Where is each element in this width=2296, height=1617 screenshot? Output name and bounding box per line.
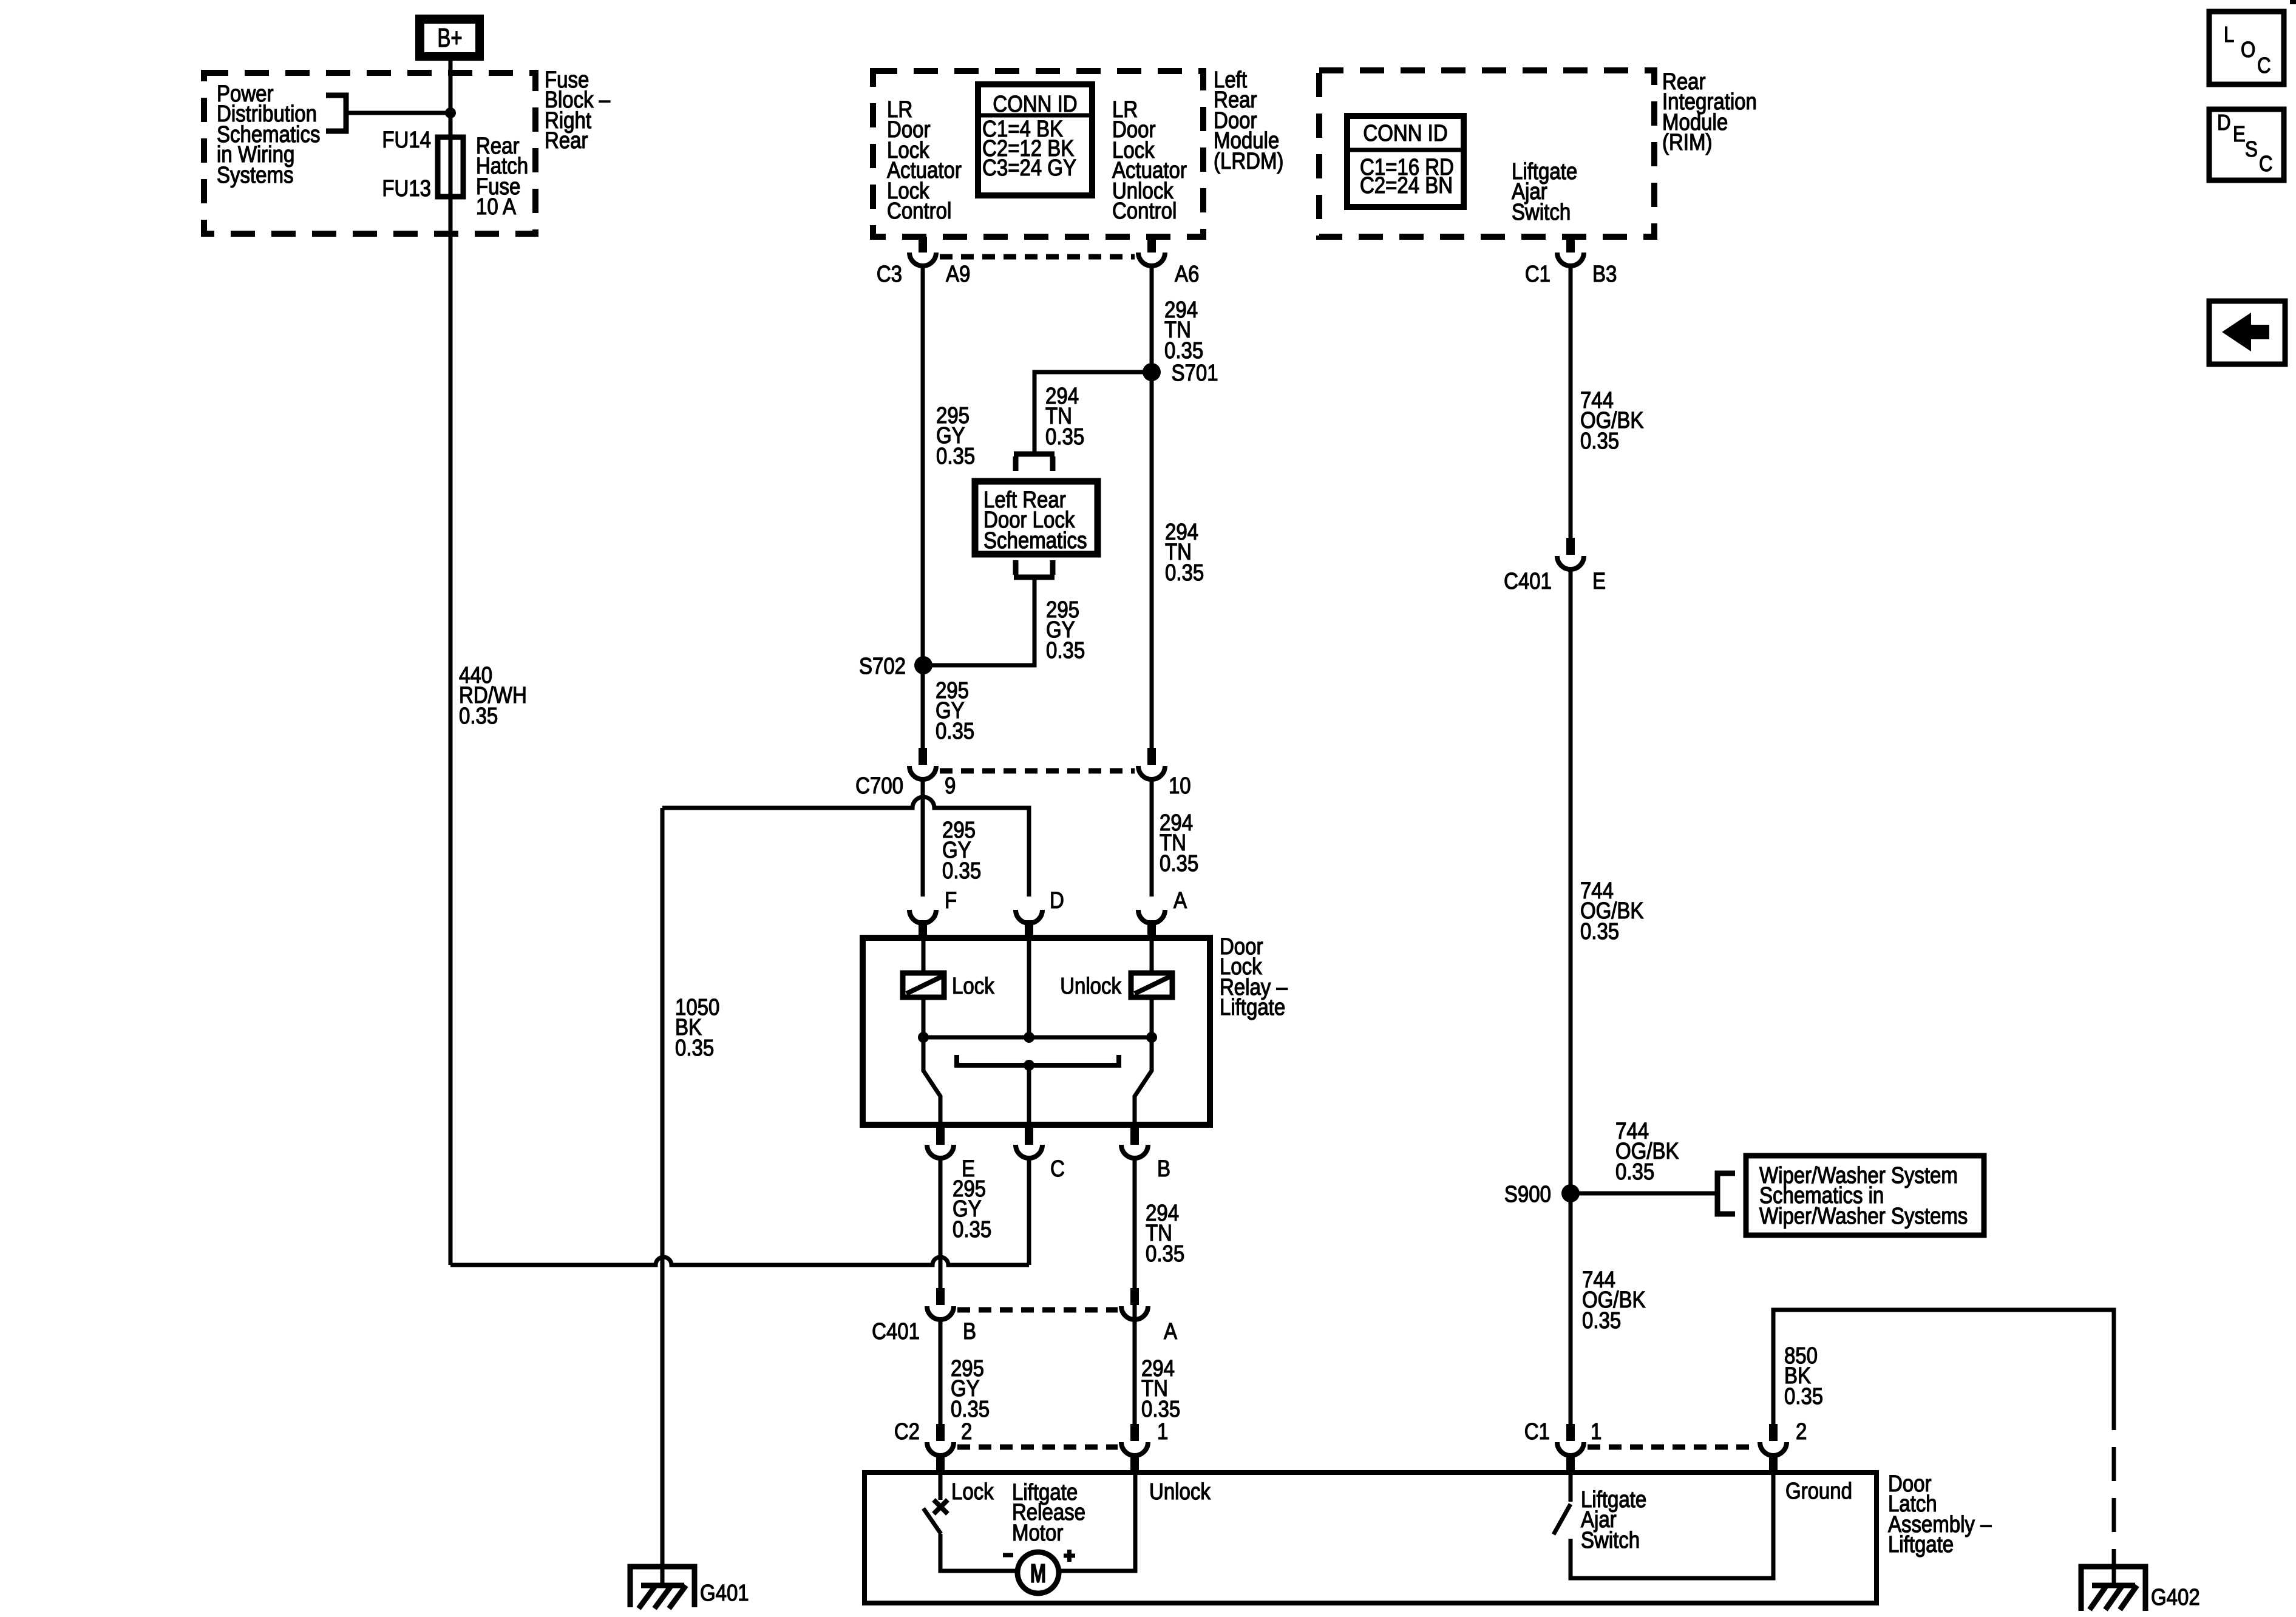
wire S900 branch to wiper/washer <box>1571 1192 1717 1196</box>
relay coil common bus <box>923 1036 1152 1040</box>
svg-text:1: 1 <box>1591 1419 1601 1445</box>
splice S702 <box>914 656 932 674</box>
reference box Left Rear Door Lock Schematics <box>975 481 1098 554</box>
connector relay pin C <box>1016 1125 1042 1158</box>
wire 294 TN C700-10 to relay pin A <box>1150 779 1154 897</box>
label 295 GY 0.35 (below A9) <box>936 402 975 469</box>
label 744 OG/BK 0.35 (above S900) <box>1615 1118 1679 1185</box>
wire 440 RD/WH horizontal run to relay pin C <box>450 1257 1029 1265</box>
label Left Rear Door Module (LRDM) <box>1214 67 1283 174</box>
connector C700 pin 9 <box>909 748 936 779</box>
off-page bracket to Power Distribution Schematics <box>326 95 346 131</box>
connector relay pin D <box>1016 910 1042 938</box>
svg-text:C700: C700 <box>855 773 903 799</box>
wire relay A to unlock coil <box>1150 938 1154 973</box>
svg-text:C3=24 GY: C3=24 GY <box>982 155 1076 181</box>
svg-text:D: D <box>2217 110 2231 135</box>
svg-text:E: E <box>2233 122 2246 147</box>
label Door Latch Assembly - Liftgate <box>1888 1471 1992 1558</box>
svg-text:B: B <box>963 1318 976 1344</box>
label 744 OG/BK 0.35 (mid run) <box>1580 878 1644 944</box>
label Liftgate Release Motor <box>1012 1479 1085 1546</box>
junction dot armature center <box>1024 1060 1034 1071</box>
svg-text:Rear: Rear <box>545 127 588 154</box>
svg-text:(LRDM): (LRDM) <box>1214 148 1283 174</box>
label plus <box>1064 1550 1075 1562</box>
label 294 TN 0.35 (below S701) <box>1165 519 1204 586</box>
wire 744 OG/BK C401-E to S900 <box>1569 569 1573 1424</box>
svg-text:C: C <box>2259 152 2273 177</box>
icon LOC box <box>2209 12 2284 84</box>
wire lock coil to bus <box>922 997 926 1037</box>
svg-text:C2=24 BN: C2=24 BN <box>1360 172 1453 198</box>
connector C3 pin A9 (LRDM lock control) <box>909 237 936 266</box>
svg-text:0.35: 0.35 <box>1784 1383 1823 1409</box>
label 295 GY 0.35 (below relay E) <box>953 1176 991 1242</box>
connector table CONN ID (LRDM) <box>978 84 1092 195</box>
wire 440 RD/WH 0.35 vertical run <box>449 197 453 1265</box>
connector dashed line C700 row <box>940 768 1135 774</box>
svg-text:1: 1 <box>1157 1419 1168 1445</box>
svg-text:0.35: 0.35 <box>936 443 975 469</box>
module RIM dashed box <box>1319 70 1654 237</box>
svg-text:Wiper/Washer Systems: Wiper/Washer Systems <box>1759 1203 1968 1229</box>
label 295 GY 0.35 (above C2) <box>951 1355 990 1422</box>
svg-text:Systems: Systems <box>217 162 293 188</box>
svg-text:Unlock: Unlock <box>1060 973 1121 999</box>
connector relay pin A <box>1138 910 1165 938</box>
motor M liftgate release <box>1017 1552 1059 1593</box>
connector C401 pin A <box>1121 1288 1148 1320</box>
svg-text:Lock: Lock <box>952 973 994 999</box>
svg-text:L: L <box>2224 22 2234 47</box>
off-page bracket to wiper/washer schematics <box>1717 1173 1735 1214</box>
connector C2 pin 2 <box>927 1424 954 1474</box>
wire relay D to bus <box>1027 938 1031 1037</box>
wire tie 1050 BK to relay pin D with hop over 295 GY <box>662 797 1029 897</box>
svg-text:0.35: 0.35 <box>1582 1307 1621 1334</box>
component box Door Latch Assembly - Liftgate <box>864 1473 1877 1603</box>
connector C401 pin B <box>927 1288 954 1320</box>
connector table CONN ID (RIM) <box>1347 116 1464 207</box>
svg-text:0.35: 0.35 <box>1046 637 1085 663</box>
svg-text:E: E <box>1592 568 1606 594</box>
svg-text:CONN ID: CONN ID <box>993 91 1077 117</box>
svg-text:10 A: 10 A <box>476 194 516 220</box>
svg-text:B+: B+ <box>437 24 462 53</box>
wire 295 GY from schematics box to S702 <box>923 577 1034 665</box>
svg-text:Unlock: Unlock <box>1149 1479 1211 1505</box>
wire 850 BK dashed drop to G402 <box>2112 1447 2116 1585</box>
fuse block dashed box (Power Distribution / Fuse Block Right Rear) <box>204 73 535 234</box>
connector C1 pin 2 (door latch ground) <box>1760 1424 1787 1474</box>
module LRDM dashed box <box>873 71 1203 237</box>
svg-text:FU14: FU14 <box>382 127 431 153</box>
label Rear Hatch Fuse 10 A <box>476 133 528 220</box>
svg-text:0.35: 0.35 <box>459 703 498 729</box>
svg-text:Switch: Switch <box>1512 199 1571 225</box>
ajar switch blade <box>1554 1504 1571 1534</box>
icon DESC box <box>2209 109 2284 180</box>
svg-text:C1: C1 <box>1525 261 1550 287</box>
svg-text:0.35: 0.35 <box>936 718 974 744</box>
svg-text:C3: C3 <box>877 261 902 287</box>
wire 294 TN from A6 to C700-10 <box>1150 266 1154 748</box>
label 440 RD/WH 0.35 <box>459 662 527 729</box>
wire 295 GY C700-9 to relay pin F <box>921 779 925 897</box>
relay unlock coil <box>1131 973 1172 997</box>
label 294 TN 0.35 (S701 branch) <box>1045 383 1084 450</box>
svg-text:Liftgate: Liftgate <box>1220 994 1285 1020</box>
relay armature bar <box>957 1055 1119 1065</box>
svg-text:S900: S900 <box>1504 1181 1551 1207</box>
connector C1 pin B3 (RIM) <box>1557 237 1584 266</box>
wire 1050 BK 0.35 to ground G401 <box>661 808 665 1585</box>
wire bracket to B+ node <box>346 111 450 115</box>
svg-text:0.35: 0.35 <box>675 1035 714 1061</box>
wire 295 GY relay E to C401-B <box>939 1158 943 1288</box>
wire ajar switch to ground pin 2 <box>1571 1474 1773 1578</box>
svg-text:Schematics: Schematics <box>983 527 1087 554</box>
wire 850 BK pin 2 to G402 run <box>1773 1310 2114 1430</box>
wire motor plus to unlock pin 1 <box>1060 1473 1135 1571</box>
relay box Door Lock Relay - Liftgate <box>863 938 1210 1125</box>
connector C700 pin 10 <box>1138 748 1165 779</box>
label 1050 BK 0.35 <box>675 994 719 1061</box>
label Liftgate Ajar Switch (door latch) <box>1581 1486 1646 1553</box>
connector relay pin B <box>1121 1125 1148 1158</box>
svg-text:C: C <box>2257 53 2271 78</box>
label 294 TN 0.35 (below A6) <box>1164 297 1203 364</box>
connector C2 pin 1 <box>1121 1424 1148 1474</box>
svg-text:Switch: Switch <box>1581 1527 1640 1553</box>
svg-text:G401: G401 <box>700 1580 749 1606</box>
svg-text:FU13: FU13 <box>382 175 431 202</box>
wire relay pin C drop to 440 feed <box>1027 1158 1031 1265</box>
label 295 GY 0.35 (above relay F) <box>942 817 981 884</box>
svg-text:(RIM): (RIM) <box>1662 129 1712 155</box>
svg-text:Control: Control <box>887 198 951 224</box>
svg-text:2: 2 <box>1796 1419 1807 1445</box>
label 294 TN 0.35 (below relay B) <box>1146 1200 1184 1267</box>
svg-text:Lock: Lock <box>951 1479 994 1505</box>
svg-text:M: M <box>1030 1559 1046 1588</box>
wire 295 GY from C3/A9 to C700-9 <box>921 266 925 748</box>
fuse FU13/FU14 Rear Hatch Fuse 10 A <box>438 137 463 197</box>
svg-text:O: O <box>2241 38 2255 63</box>
wire lock contact drop <box>939 1473 943 1500</box>
svg-text:S702: S702 <box>859 653 906 679</box>
svg-text:0.35: 0.35 <box>942 858 981 884</box>
svg-text:2: 2 <box>961 1419 972 1445</box>
wire relay F to lock coil <box>922 938 926 973</box>
connector C1 pin 1 (door latch) <box>1557 1424 1584 1474</box>
svg-text:Motor: Motor <box>1012 1520 1063 1546</box>
connector dashed line C2 row <box>957 1445 1118 1450</box>
splice S701 <box>1143 363 1161 381</box>
svg-text:C401: C401 <box>1504 568 1552 594</box>
label Power Distribution Schematics in Wiring Systems <box>217 81 320 188</box>
wire unlock coil to bus <box>1150 997 1154 1037</box>
svg-text:A9: A9 <box>946 261 970 287</box>
svg-text:G402: G402 <box>2151 1584 2200 1610</box>
svg-text:0.35: 0.35 <box>1165 560 1204 586</box>
label Fuse Block - Right Rear <box>545 67 610 154</box>
svg-text:C401: C401 <box>872 1318 920 1344</box>
svg-text:S701: S701 <box>1172 360 1218 386</box>
label 744 OG/BK 0.35 (below S900) <box>1582 1267 1646 1334</box>
relay switch blade right (to pin B) <box>1135 1037 1152 1125</box>
off-page bracket into Left Rear Door Lock Schematics <box>1014 454 1055 471</box>
svg-text:F: F <box>945 887 957 914</box>
connector dashed line C3 row <box>940 254 1135 260</box>
svg-text:A6: A6 <box>1175 261 1199 287</box>
junction dot bus middle <box>1024 1032 1034 1043</box>
svg-text:S: S <box>2245 137 2258 162</box>
label 294 TN 0.35 (above relay A) <box>1160 810 1198 876</box>
label LR Door Lock Actuator Unlock Control <box>1112 97 1187 224</box>
lock contact X marker <box>934 1500 948 1514</box>
ground G401 <box>630 1567 695 1609</box>
connector C3 pin A6 (LRDM unlock control) <box>1138 237 1165 266</box>
junction dot bus left <box>918 1032 929 1043</box>
page corner mark <box>2290 0 2296 4</box>
label Rear Integration Module (RIM) <box>1662 69 1757 155</box>
wire 294 TN relay B to C401-A <box>1133 1158 1137 1424</box>
relay lock coil <box>903 973 944 997</box>
svg-text:B3: B3 <box>1592 261 1617 287</box>
svg-text:0.35: 0.35 <box>953 1216 991 1242</box>
ground G402 <box>2081 1567 2145 1611</box>
wire armature to relay pin C <box>1027 1065 1031 1125</box>
svg-text:Liftgate: Liftgate <box>1888 1531 1954 1558</box>
label 295 GY 0.35 (below S702) <box>936 677 974 744</box>
label 850 BK 0.35 <box>1784 1343 1823 1409</box>
svg-text:C1: C1 <box>1524 1419 1550 1445</box>
svg-text:10: 10 <box>1169 773 1191 799</box>
power symbol B+ <box>415 15 484 61</box>
svg-text:A: A <box>1164 1318 1177 1344</box>
wire B+ feed to fuse <box>449 61 453 197</box>
connector relay pin E <box>927 1125 954 1158</box>
label minus <box>1003 1553 1013 1558</box>
connector dashed line C401 row <box>957 1307 1118 1313</box>
lock switch blade <box>923 1508 941 1534</box>
svg-text:A: A <box>1173 887 1187 914</box>
relay switch blade left (to pin E) <box>923 1037 940 1125</box>
label Door Lock Relay - Liftgate <box>1220 934 1288 1020</box>
reference box Wiper/Washer System Schematics <box>1746 1156 1984 1235</box>
label Liftgate Ajar Switch (RIM) <box>1512 158 1577 225</box>
wire 744 OG/BK B3 to C401-E <box>1569 266 1573 538</box>
svg-text:0.35: 0.35 <box>1146 1241 1184 1267</box>
svg-text:0.35: 0.35 <box>1580 918 1619 944</box>
svg-text:0.35: 0.35 <box>1615 1159 1654 1185</box>
svg-text:Ground: Ground <box>1785 1478 1852 1504</box>
label 295 GY 0.35 (schematics drop) <box>1046 597 1085 663</box>
svg-text:0.35: 0.35 <box>1160 850 1198 876</box>
off-page bracket out of Left Rear Door Lock Schematics <box>1014 560 1055 577</box>
wire 295 GY C401-B to C2-2 <box>939 1320 943 1424</box>
svg-text:0.35: 0.35 <box>1580 428 1619 454</box>
wire lock switch to motor minus <box>940 1534 1016 1571</box>
svg-text:D: D <box>1050 887 1064 914</box>
wire ajar switch drop (pin 1) <box>1569 1474 1573 1502</box>
svg-text:Control: Control <box>1112 198 1177 224</box>
svg-text:C2: C2 <box>894 1419 920 1445</box>
label LR Door Lock Actuator Lock Control <box>887 97 962 224</box>
icon back-arrow box <box>2209 301 2285 364</box>
connector C401 pin E <box>1557 538 1584 569</box>
label 744 OG/BK 0.35 (below B3) <box>1580 387 1644 454</box>
label 294 TN 0.35 (above C2-1) <box>1141 1355 1180 1422</box>
connector relay pin F <box>909 910 936 938</box>
junction node at B+ feed <box>445 107 456 118</box>
svg-text:C: C <box>1050 1156 1065 1182</box>
svg-text:9: 9 <box>945 773 956 799</box>
connector dashed line C1 row <box>1588 1445 1756 1450</box>
junction dot bus right <box>1146 1032 1157 1043</box>
svg-text:CONN ID: CONN ID <box>1363 120 1447 146</box>
svg-text:0.35: 0.35 <box>1045 424 1084 450</box>
svg-text:B: B <box>1157 1156 1170 1182</box>
splice S900 <box>1561 1184 1580 1202</box>
wire S701 branch to door lock schematics <box>1034 372 1152 454</box>
